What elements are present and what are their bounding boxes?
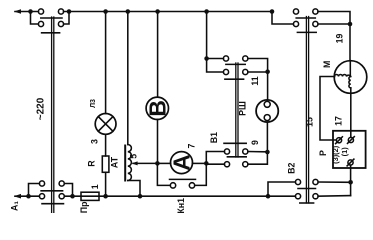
wire AT riser from top bus [127, 12, 129, 145]
arrow AT tap [131, 161, 137, 165]
svg-text:РШ: РШ [238, 101, 248, 116]
wire box bottom drop [350, 165, 352, 196]
svg-text:Пр: Пр [79, 201, 89, 213]
wire voltmeter drop [157, 12, 159, 98]
wire elbow left up to upper contact [29, 184, 40, 197]
wire elbow left to lower contact [31, 12, 39, 25]
svg-text:В: В [145, 100, 171, 117]
connector bar top-right end [297, 31, 316, 33]
node bus end [270, 9, 275, 14]
node RSh feed [204, 56, 209, 61]
connector bar bottom middle [41, 190, 63, 192]
wire AT tap [133, 162, 157, 164]
connector X5 (V2) contacts [295, 179, 300, 184]
fuse Pr [81, 192, 99, 200]
connector X3 (RSh) contacts [223, 56, 228, 61]
arrow to source A1 (bottom) [14, 194, 21, 199]
svg-text:11: 11 [250, 76, 260, 85]
svg-text:А: А [169, 154, 195, 171]
wire V1 left upper elbow [206, 152, 224, 164]
connector bar top end [42, 32, 60, 34]
svg-text:19: 19 [335, 34, 345, 44]
svg-text:(1): (1) [340, 147, 349, 157]
autotransformer AT core [124, 146, 126, 181]
svg-text:1: 1 [90, 184, 100, 189]
wire ammeter to node [192, 162, 206, 164]
node AT-bus [126, 9, 131, 14]
svg-text:АТ: АТ [109, 156, 119, 168]
wire RSh right lower [248, 71, 266, 73]
ammeter A [171, 152, 193, 174]
connector bar V2 end [300, 202, 314, 204]
wire V2 right lower to riser [318, 195, 351, 198]
svg-text:9: 9 [250, 140, 260, 145]
motor rotor winding [349, 77, 351, 88]
connector bar V1 end [224, 142, 246, 144]
arrow to source (top) [14, 9, 21, 14]
node V-bus [155, 9, 160, 14]
svg-text:Кн1: Кн1 [176, 198, 186, 214]
motor M [334, 61, 367, 94]
connector bar top middle [41, 17, 62, 19]
svg-text:Л3: Л3 [90, 99, 97, 108]
wire R riser [105, 172, 107, 196]
node RSh-bus [204, 9, 209, 14]
svg-text:В2: В2 [286, 162, 296, 173]
wire node11 to socket [267, 72, 269, 100]
node V2 branch [266, 194, 271, 199]
connector X6 top-right contacts [293, 9, 298, 14]
wire V2 upper branch [268, 182, 295, 196]
node lamp-bus [103, 9, 108, 14]
autotransformer AT winding [128, 145, 132, 181]
node 9 [265, 150, 270, 155]
connector bar top-right middle [296, 17, 315, 19]
svg-text:5: 5 [129, 154, 139, 159]
wire Kn1 right [195, 163, 207, 185]
resistor R [102, 156, 109, 172]
connector bar bottom end [42, 203, 64, 205]
node box-V2 [348, 180, 353, 185]
wire V1 right lower elbow [248, 154, 268, 164]
wire lamp to top bus [105, 12, 107, 114]
connector bar RSh middle [226, 63, 245, 65]
cable right (double line) [305, 17, 307, 204]
node bottom-right [70, 194, 75, 199]
svg-text:15: 15 [304, 117, 314, 127]
voltmeter V [146, 97, 168, 119]
node AT-bottom-bus [138, 194, 143, 199]
terminal top-right in box [348, 137, 353, 142]
wire 15 [320, 77, 336, 141]
wire 17 motor to box [350, 88, 352, 137]
wire socket to node 9 [266, 122, 268, 152]
node 11 [265, 69, 270, 74]
lamp L3 [95, 114, 116, 135]
wire R to lamp [105, 134, 107, 156]
relay P box [333, 131, 366, 168]
wire X6 right lower [318, 23, 348, 25]
wire elbow right to lower contact [64, 12, 69, 25]
wire motor internal top [349, 61, 351, 77]
connector bar V1 middle [227, 156, 246, 158]
button Kn1 bridge bar [170, 178, 196, 180]
terminal (1) bottom-right in box [348, 160, 353, 165]
wire V1 right upper [248, 151, 265, 153]
wire elbow right up to upper contact [64, 184, 72, 197]
node tap junction [155, 161, 160, 166]
node fuse-R junction [103, 194, 108, 199]
wire RSh right upper [248, 59, 268, 70]
cable ~220 (double line left) [51, 17, 53, 212]
node ammeter-right [204, 161, 209, 166]
motor stator winding [335, 75, 351, 77]
wire tap node to ammeter [157, 162, 170, 164]
svg-text:7: 7 [187, 143, 197, 148]
node 19 [348, 22, 353, 27]
svg-text:(3)(2): (3)(2) [331, 145, 340, 164]
wire top bus left arrow segment [15, 11, 38, 13]
connector bar V2 middle [298, 188, 316, 190]
wire voltmeter to tap node [157, 119, 159, 163]
wire RSh feed drop [206, 12, 208, 59]
wire Kn1 left [157, 163, 170, 185]
connector X2 bottom: contacts [39, 181, 44, 186]
svg-text:А₁: А₁ [10, 201, 20, 211]
wire V1 left lower [206, 163, 224, 165]
svg-text:17: 17 [334, 116, 344, 126]
wire X6 right upper [318, 12, 350, 22]
svg-text:Р: Р [318, 150, 328, 156]
wire elbow to lower contact [207, 59, 224, 73]
wire AT bottom elbow to bus [128, 181, 140, 197]
wire bottom bus arrow segment [15, 195, 39, 197]
wire 19 to motor [349, 24, 351, 61]
wire elbow to lower contact [272, 12, 293, 25]
node bottom-left [26, 194, 31, 199]
svg-text:В1: В1 [209, 132, 219, 143]
svg-text:3: 3 [90, 139, 100, 144]
wire V2 right upper to node [318, 181, 351, 183]
cable middle (double line) [235, 63, 237, 157]
wire top bus main [64, 11, 272, 13]
connector bar RSh end [225, 78, 244, 80]
wire bottom bus main [64, 195, 295, 197]
terminal (2) top-left in box [336, 138, 341, 143]
connector X4 (V1) contacts [224, 149, 229, 154]
svg-text:~220: ~220 [36, 97, 47, 120]
socket RSh [256, 100, 278, 122]
connector X1 top: contacts [38, 9, 43, 14]
svg-text:М: М [322, 61, 332, 68]
button Kn1 contacts [170, 183, 175, 188]
node top-left [28, 9, 33, 14]
wire to upper contact [207, 58, 224, 60]
node top-right [67, 9, 72, 14]
svg-text:R: R [87, 160, 97, 167]
